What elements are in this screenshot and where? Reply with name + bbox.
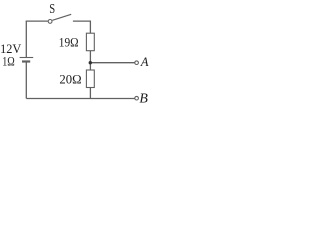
svg-text:19Ω: 19Ω	[59, 35, 79, 50]
svg-text:1Ω: 1Ω	[2, 53, 15, 68]
svg-text:S: S	[49, 1, 55, 16]
svg-text:A: A	[140, 54, 149, 69]
svg-text:B: B	[139, 91, 148, 106]
svg-text:20Ω: 20Ω	[59, 72, 81, 87]
